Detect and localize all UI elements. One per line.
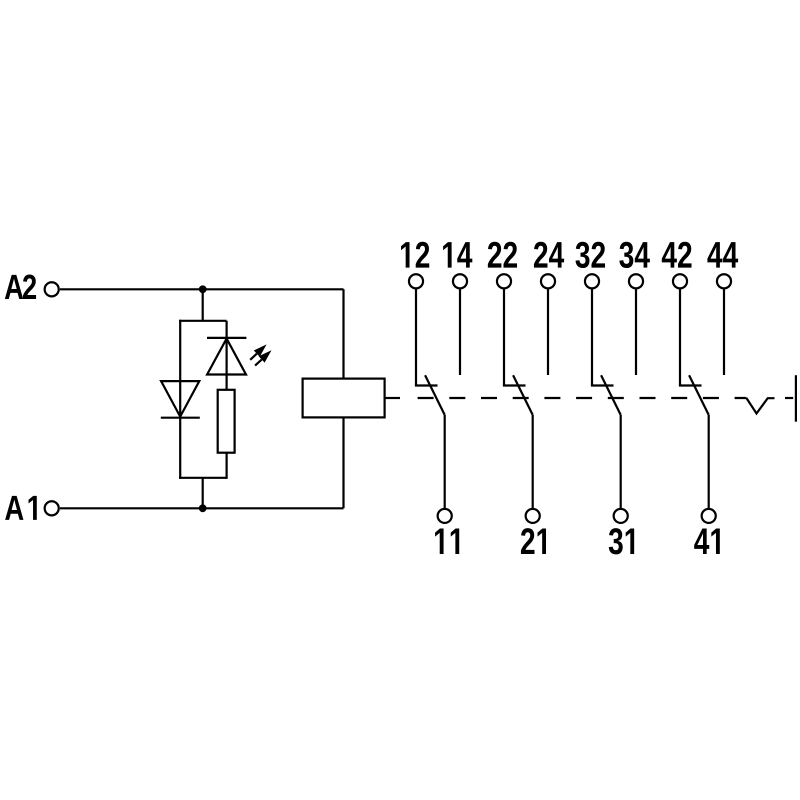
wire NC 42 drop bbox=[679, 289, 681, 385]
terminal 42 (NC) bbox=[662, 242, 692, 289]
terminal 24 (NO) bbox=[534, 242, 564, 289]
terminal 32 (NC) bbox=[576, 242, 606, 289]
wire common 31 riser bbox=[620, 415, 622, 508]
terminal 21 (common) bbox=[521, 509, 546, 554]
terminal 41 (common) bbox=[694, 509, 720, 554]
terminal 31 (common) bbox=[609, 509, 634, 555]
terminal 22 (NC) bbox=[488, 242, 517, 289]
terminal 12 (NC) bbox=[401, 242, 429, 289]
wire below resistor bbox=[226, 453, 228, 479]
wire NC 12 drop bbox=[415, 289, 417, 385]
wire common 41 riser bbox=[708, 415, 710, 508]
switch arm contact 3 bbox=[601, 375, 621, 415]
wire right branch from top to LED bbox=[226, 321, 228, 338]
NC contact bar 12 bbox=[415, 384, 438, 386]
wire common 11 riser bbox=[444, 415, 446, 508]
LED emission arrows bbox=[250, 344, 271, 365]
wire coil branch bbox=[342, 289, 344, 508]
wire A2 rail bbox=[60, 288, 344, 290]
wire left branch (through diode) bbox=[179, 320, 181, 479]
wire indicator branch top bbox=[179, 320, 227, 322]
wire down to A1 node bbox=[202, 478, 204, 509]
NC contact bar 22 bbox=[503, 384, 526, 386]
linkage end bar bbox=[795, 375, 797, 422]
wire NC 32 drop bbox=[591, 289, 593, 385]
NC contact bar 42 bbox=[679, 384, 702, 386]
wire coil actuator stub bbox=[385, 397, 400, 399]
wire NO 34 drop bbox=[635, 289, 637, 375]
node junction on A1 rail bbox=[199, 504, 207, 512]
wire NO 14 drop bbox=[459, 289, 461, 375]
diode V1 (freewheeling) bbox=[161, 381, 200, 418]
switch arm contact 1 bbox=[425, 375, 445, 415]
terminal 14 (NO) bbox=[443, 242, 472, 288]
switch arm contact 4 bbox=[689, 375, 709, 415]
terminal 44 (NO) bbox=[707, 242, 738, 288]
linkage check notch bbox=[746, 398, 774, 414]
wire A1 rail bbox=[60, 507, 344, 509]
terminal A1 bbox=[5, 496, 59, 520]
node junction on A2 rail bbox=[199, 285, 207, 293]
linkage end dash bbox=[785, 397, 793, 399]
mechanical linkage dashed line bbox=[418, 397, 747, 399]
resistor R1 bbox=[218, 390, 235, 453]
terminal 11 (common) bbox=[435, 509, 459, 554]
wire NO 44 drop bbox=[723, 289, 725, 375]
NC contact bar 32 bbox=[591, 384, 614, 386]
relay coil K1 bbox=[303, 379, 385, 418]
wire from A2 node down to indicator branch bbox=[202, 289, 204, 321]
LED V2 bbox=[207, 338, 246, 390]
terminal 34 (NO) bbox=[619, 242, 649, 289]
terminal A2 bbox=[5, 275, 59, 299]
wire NO 24 drop bbox=[547, 289, 549, 375]
switch arm contact 2 bbox=[513, 375, 533, 415]
wire common 21 riser bbox=[532, 415, 534, 508]
wire indicator branch bottom bbox=[179, 477, 227, 479]
wire NC 22 drop bbox=[503, 289, 505, 385]
